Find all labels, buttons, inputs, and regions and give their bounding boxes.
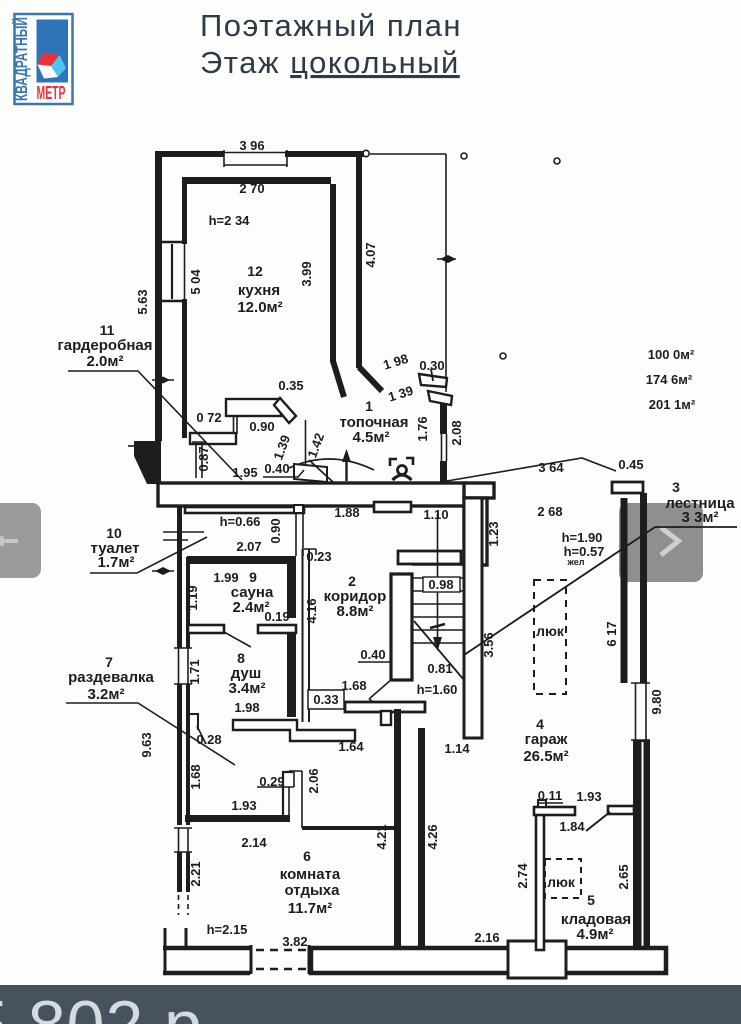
- svg-text:2.0м²: 2.0м²: [87, 353, 124, 370]
- wall boiler right lower: [440, 461, 447, 484]
- svg-text:3 3м²: 3 3м²: [682, 509, 719, 526]
- wall diagonal to boiler room: [359, 367, 382, 391]
- toilet box right wall: [296, 513, 303, 556]
- window boiler right (1.76/2.08): [442, 434, 447, 461]
- storeroom door frame: [608, 806, 634, 814]
- svg-text:4.26: 4.26: [425, 824, 440, 849]
- toilet box top wall: [185, 507, 304, 513]
- svg-text:3.99: 3.99: [299, 261, 314, 286]
- svg-text:9: 9: [249, 569, 257, 585]
- wall kitchen inner top: [185, 177, 331, 184]
- bottom wall right section: [311, 948, 666, 973]
- svg-text:1.23: 1.23: [486, 521, 501, 546]
- corridor east wall (stairs): [391, 574, 412, 680]
- wall left side lower (outer): [177, 506, 182, 648]
- svg-text:2.74: 2.74: [515, 863, 530, 889]
- storeroom top wall: [534, 807, 575, 815]
- svg-text:3 96: 3 96: [239, 138, 264, 153]
- node circle D: [500, 353, 506, 359]
- storeroom top jog 0.11: [538, 800, 546, 807]
- svg-text:3.56: 3.56: [481, 632, 496, 657]
- stair guide line + arrow: [437, 513, 439, 640]
- svg-text:0.40: 0.40: [360, 647, 385, 662]
- stair top landing bar: [398, 551, 461, 564]
- svg-text:Поэтажный план: Поэтажный план: [200, 8, 462, 43]
- dash-dot wall opening: [179, 895, 189, 915]
- wire step down: [234, 416, 238, 434]
- toilet box notch: [294, 505, 303, 513]
- wall top-left segment: [155, 151, 224, 157]
- bottom wall left section: [163, 948, 250, 973]
- dim tick 4.07: [437, 258, 456, 260]
- wall kitchen right outer: [356, 156, 362, 368]
- svg-text:2.65: 2.65: [616, 864, 631, 889]
- svg-text:3.2м²: 3.2м²: [88, 686, 125, 703]
- svg-text:1.7м²: 1.7м²: [98, 554, 135, 571]
- wall left side low: [177, 852, 182, 892]
- door 0.28 tick: [197, 726, 206, 744]
- window top (3.96): [224, 150, 287, 167]
- wall kitchen bottom step (0.35/0.90): [226, 399, 281, 416]
- stair treads: [412, 565, 464, 643]
- east wall outer: [640, 493, 647, 683]
- svg-text:2.08: 2.08: [449, 420, 464, 445]
- svg-text:1.88: 1.88: [334, 505, 359, 520]
- bottom price bar: [0, 985, 741, 1024]
- partition 0.29/2.06: [289, 771, 302, 828]
- toilet door ticks: [163, 532, 204, 540]
- underline 0.40 kitchen: [263, 470, 304, 477]
- svg-text:1.99: 1.99: [213, 570, 238, 585]
- hatch dashed box storeroom: [545, 859, 581, 898]
- node circle C: [554, 158, 560, 164]
- dim 0.98 boxed: [423, 577, 460, 592]
- stair break diagonal: [414, 621, 464, 680]
- svg-text:0.81: 0.81: [427, 661, 452, 676]
- hatch dashed box stairs: [534, 580, 566, 694]
- svg-text:0.11: 0.11: [538, 788, 563, 803]
- svg-text:отдыха: отдыха: [285, 882, 341, 899]
- sauna top wall: [187, 556, 296, 564]
- bracket 0.23: [304, 549, 316, 555]
- svg-text:1.98: 1.98: [234, 700, 259, 715]
- svg-text:0.19: 0.19: [264, 609, 289, 624]
- svg-text:0.90: 0.90: [268, 518, 283, 543]
- logo kvadratny metr: [12, 14, 73, 104]
- svg-text:0.35: 0.35: [278, 378, 303, 393]
- svg-text:2.21: 2.21: [188, 861, 203, 886]
- svg-text:1.64: 1.64: [338, 739, 364, 754]
- svg-text:4.21: 4.21: [374, 824, 389, 849]
- svg-text:2 70: 2 70: [239, 181, 264, 196]
- storeroom west wall: [536, 808, 544, 950]
- svg-text:0.98: 0.98: [428, 577, 453, 592]
- stair left wall upper: [464, 498, 487, 565]
- svg-text:6 17: 6 17: [604, 621, 619, 646]
- svg-text:h=1.90: h=1.90: [562, 530, 603, 545]
- title: [200, 8, 462, 80]
- east wall inner: [621, 498, 628, 683]
- svg-text:1: 1: [365, 398, 373, 414]
- svg-text:КВАДРАТНЫЙ: КВАДРАТНЫЙ: [12, 17, 31, 101]
- door leaf corridor-stairs: [369, 679, 392, 699]
- door jamb left wall: [190, 714, 198, 730]
- underline 0.40 corridor: [358, 661, 390, 663]
- svg-text:0.29: 0.29: [259, 774, 284, 789]
- svg-text:11.7м²: 11.7м²: [288, 900, 332, 917]
- door gap dashes bottom (3.82): [256, 950, 306, 969]
- svg-text:жел: жел: [567, 557, 585, 567]
- svg-text:0.23: 0.23: [306, 549, 331, 564]
- svg-text:4.16: 4.16: [304, 598, 319, 623]
- shower bottom wall zigzag: [233, 720, 355, 741]
- wire thin top line to corner: [370, 153, 446, 155]
- svg-text:3.4м²: 3.4м²: [229, 680, 266, 697]
- window left 2.21: [174, 828, 192, 852]
- wall top-right segment: [285, 151, 364, 157]
- sauna/shower divider left: [188, 625, 224, 633]
- door slab boiler: [294, 464, 327, 482]
- wall komnata top right: [302, 826, 394, 830]
- sauna door leaf: [224, 632, 251, 647]
- svg-text:1.95: 1.95: [232, 465, 257, 480]
- svg-text:4.9м²: 4.9м²: [577, 926, 614, 943]
- svg-text:2 68: 2 68: [537, 504, 562, 519]
- svg-text:3: 3: [672, 479, 680, 495]
- leader dressing room: [66, 703, 235, 765]
- wall jog slab b: [428, 391, 452, 405]
- svg-text:1.71: 1.71: [187, 659, 202, 684]
- svg-text:9.63: 9.63: [139, 732, 154, 757]
- svg-text:1.84: 1.84: [559, 819, 585, 834]
- leader wardrobe: [68, 371, 242, 480]
- svg-text:гараж: гараж: [525, 731, 568, 748]
- storeroom door leaf: [586, 812, 610, 831]
- wall wardrobe top (0.72): [190, 433, 236, 444]
- svg-text:0.87: 0.87: [196, 446, 211, 471]
- svg-text:10: 10: [106, 525, 122, 541]
- chimney black wedge: [134, 441, 161, 484]
- svg-text:12: 12: [247, 263, 263, 279]
- svg-text:1.93: 1.93: [576, 789, 601, 804]
- sauna right wall solid: [287, 564, 296, 618]
- svg-text:100 0м²: 100 0м²: [648, 347, 695, 362]
- svg-text:0.30: 0.30: [419, 358, 444, 373]
- svg-text:4: 4: [536, 716, 544, 732]
- svg-text:3.82: 3.82: [282, 934, 307, 949]
- svg-text:0 72: 0 72: [196, 410, 221, 425]
- svg-text:h=1.60: h=1.60: [417, 682, 458, 697]
- svg-text:гардеробная: гардеробная: [58, 337, 153, 354]
- svg-text:4.5м²: 4.5м²: [353, 429, 390, 446]
- svg-text:2.14: 2.14: [241, 835, 267, 850]
- wire wardrobe right boundary: [305, 420, 307, 479]
- svg-text:5802 р.: 5802 р.: [0, 987, 223, 1024]
- svg-text:люк: люк: [536, 623, 565, 639]
- svg-text:5 04: 5 04: [188, 269, 203, 295]
- svg-text:5.63: 5.63: [135, 289, 150, 314]
- svg-text:9.80: 9.80: [649, 689, 664, 714]
- window left (5.04) middle line + ticks: [171, 244, 173, 299]
- boiler WC symbol: [390, 459, 397, 466]
- svg-text:1.10: 1.10: [423, 507, 448, 522]
- notch below bar: [374, 502, 411, 512]
- svg-text:8: 8: [237, 650, 245, 666]
- wire thin right boundary down: [445, 154, 447, 392]
- svg-text:МЕТР: МЕТР: [37, 83, 66, 103]
- svg-text:0.28: 0.28: [196, 732, 221, 747]
- east window 9.80: [631, 683, 650, 740]
- underline 0.29: [257, 771, 294, 787]
- tick jog: [431, 369, 433, 381]
- wall left side mid: [177, 684, 182, 825]
- svg-text:11: 11: [100, 322, 115, 338]
- underline 0.11: [537, 802, 563, 804]
- svg-text:1.76: 1.76: [415, 416, 430, 441]
- svg-text:2: 2: [348, 573, 356, 589]
- nav arrow box left: [0, 503, 41, 578]
- corridor west wall thin lines: [303, 549, 310, 722]
- svg-text:Этаж цокольный: Этаж цокольный: [200, 45, 460, 80]
- svg-text:0.90: 0.90: [249, 419, 274, 434]
- garage west wall left line: [394, 709, 401, 950]
- svg-text:раздевалка: раздевалка: [68, 669, 154, 686]
- svg-text:174 6м²: 174 6м²: [646, 372, 693, 387]
- window wardrobe 0.87: [192, 442, 206, 478]
- svg-text:1.68: 1.68: [341, 678, 366, 693]
- dim tick left wall: [152, 379, 174, 381]
- stair right wall: [464, 498, 482, 738]
- main wall bar (white core): [158, 483, 465, 506]
- wall kitchen right inner diagonal: [333, 361, 344, 397]
- garage gate: [508, 941, 566, 978]
- main bar right extension: [464, 483, 494, 498]
- dim 0.33: [308, 690, 344, 709]
- svg-text:h=2 34: h=2 34: [209, 213, 251, 228]
- wall komnata step up: [283, 772, 293, 816]
- svg-text:кухня: кухня: [238, 282, 280, 299]
- svg-text:5: 5: [587, 892, 595, 908]
- east wall cap 0.45: [612, 482, 643, 493]
- door arc boiler room: [289, 459, 374, 470]
- svg-text:8.8м²: 8.8м²: [337, 603, 374, 620]
- door leaf boiler: [309, 460, 333, 482]
- svg-text:7: 7: [105, 654, 113, 670]
- leader staircase: [464, 527, 737, 655]
- svg-text:1.68: 1.68: [188, 764, 203, 789]
- wall step slanted end: [274, 398, 296, 423]
- dim tick left wall 2: [152, 570, 174, 572]
- svg-text:201 1м²: 201 1м²: [649, 397, 696, 412]
- sauna/shower divider right: [258, 625, 296, 633]
- garage west wall top cap: [345, 702, 425, 712]
- svg-text:h=0.66: h=0.66: [220, 514, 261, 529]
- svg-text:комната: комната: [280, 866, 341, 883]
- nav arrow box right: [619, 503, 703, 582]
- window left 1.71: [174, 648, 192, 684]
- svg-text:0.33: 0.33: [313, 692, 338, 707]
- wall bottom-left corner: [165, 928, 186, 971]
- svg-text:2.06: 2.06: [306, 768, 321, 793]
- svg-text:26.5м²: 26.5м²: [523, 748, 568, 765]
- svg-text:1.19: 1.19: [185, 585, 200, 610]
- svg-text:0.45: 0.45: [618, 457, 643, 472]
- node circle B: [461, 153, 467, 159]
- node circle A: [363, 150, 369, 156]
- svg-text:2.16: 2.16: [474, 930, 499, 945]
- wall kitchen right inner: [330, 184, 336, 362]
- svg-text:4.07: 4.07: [363, 242, 378, 267]
- wall left outer: [155, 151, 162, 441]
- leader toilet: [90, 537, 207, 573]
- wall boiler right upper: [440, 403, 447, 434]
- wall kitchen inner left: [182, 177, 187, 244]
- wall jog slab a: [419, 374, 447, 387]
- svg-text:6: 6: [303, 848, 311, 864]
- svg-text:h=2.15: h=2.15: [207, 922, 248, 937]
- svg-text:0.40: 0.40: [264, 461, 289, 476]
- svg-text:1.93: 1.93: [231, 798, 256, 813]
- garage west wall right line: [418, 728, 425, 950]
- svg-text:3 64: 3 64: [538, 460, 564, 475]
- svg-text:люк: люк: [547, 874, 576, 890]
- svg-text:1.14: 1.14: [444, 741, 470, 756]
- door arrow tick boiler: [345, 455, 347, 481]
- east wall lower: [633, 740, 650, 950]
- garage west wall notch: [381, 711, 391, 725]
- wall komnata top left: [185, 815, 290, 822]
- door tick 0.19: [272, 624, 296, 626]
- svg-text:2.07: 2.07: [236, 539, 261, 554]
- roof peak thin lines 3.64: [447, 458, 616, 481]
- svg-text:12.0м²: 12.0м²: [237, 299, 282, 316]
